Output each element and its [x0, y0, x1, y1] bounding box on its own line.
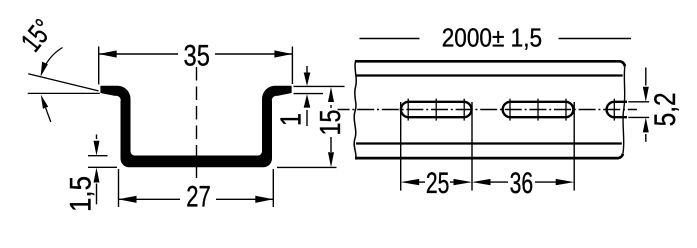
slot 1 ticks	[407, 99, 409, 121]
vertical center line (left view)	[196, 67, 198, 182]
rail third line	[356, 142, 622, 144]
dim 35: extension lines	[98, 47, 100, 85]
slot 2 ticks	[509, 99, 511, 121]
slot 2	[503, 102, 574, 117]
svg-text:15: 15	[315, 110, 347, 136]
dim 15: dimension line + arrows	[328, 87, 334, 102]
svg-text:5,2: 5,2	[649, 92, 682, 126]
svg-text:27: 27	[186, 181, 211, 214]
dim 1,5 (web thickness): ticks	[88, 155, 108, 157]
svg-text:2000± 1,5: 2000± 1,5	[442, 23, 542, 53]
dim 25/36: extension lines	[400, 102, 402, 191]
dim 27: dimension line + arrows	[119, 198, 181, 200]
dim 35: dimension line + arrows	[99, 53, 178, 55]
rail bottom edge	[355, 154, 623, 158]
15-degree callout: leader arc + arrow	[41, 48, 62, 75]
15-degree callout: sloped reference line	[28, 74, 98, 91]
dim 5,2: ticks	[628, 101, 649, 103]
dim 36: arrows + line	[472, 179, 491, 185]
svg-text:1,5: 1,5	[65, 176, 98, 212]
dim 2000: dimension line	[360, 38, 420, 40]
rail right end edge	[623, 66, 625, 153]
rail top edge	[355, 61, 625, 66]
15-degree callout: horizontal reference line	[28, 92, 100, 94]
dim 1,5: leader lines + arrows	[96, 135, 98, 140]
15-degree callout: lower arrow at horizontal line	[46, 108, 51, 122]
rail profile (filled cross-section)	[100, 86, 291, 168]
rail second line	[356, 74, 623, 76]
svg-text:25: 25	[426, 167, 450, 200]
rail left break line	[354, 60, 356, 160]
horizontal center line (dash-dot)	[338, 109, 637, 111]
dim 5,2: leader lines + arrows	[645, 68, 647, 86]
slot 3 tick	[613, 99, 615, 121]
svg-text:35: 35	[184, 40, 210, 73]
svg-text:36: 36	[510, 167, 534, 200]
slot 3 (cut by rail end)	[607, 102, 627, 117]
dim 27: extension lines	[118, 169, 120, 207]
slot 1	[401, 102, 472, 117]
dim 1 (flange thickness): ticks	[294, 85, 345, 87]
svg-text:1: 1	[276, 113, 308, 126]
dim 25: arrows + line	[401, 179, 420, 185]
dim 1: leader lines + arrows	[306, 66, 308, 73]
dim 15 (rail height): ticks	[277, 166, 337, 168]
